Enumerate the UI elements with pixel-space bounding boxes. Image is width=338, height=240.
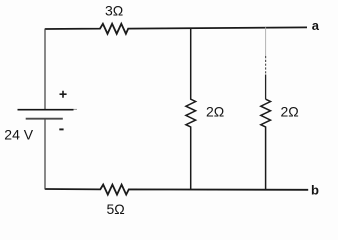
svg-text:3Ω: 3Ω [105, 2, 123, 18]
svg-text:2Ω: 2Ω [281, 104, 299, 120]
svg-text:24 V: 24 V [4, 126, 33, 142]
svg-text:5Ω: 5Ω [107, 201, 125, 217]
svg-text:2Ω: 2Ω [206, 104, 224, 120]
svg-text:b: b [311, 182, 319, 197]
svg-text:a: a [312, 18, 320, 33]
